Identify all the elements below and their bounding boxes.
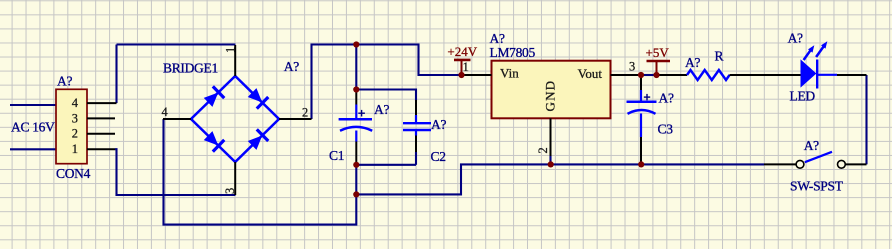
svg-text:2: 2 xyxy=(536,147,550,153)
wire gnd rail from C1 column to jog xyxy=(356,164,764,194)
wire black run +5V to resistor xyxy=(657,74,688,76)
CON4 pin 2 stub xyxy=(87,133,115,135)
wire top rail to bridge pin 1 xyxy=(117,43,236,45)
svg-text:A?: A? xyxy=(490,31,505,46)
svg-text:1: 1 xyxy=(224,47,238,53)
capacitor C3 graphic xyxy=(627,90,657,137)
svg-text:+24V: +24V xyxy=(447,44,477,59)
bridge pin 3 xyxy=(234,162,236,195)
svg-text:CON4: CON4 xyxy=(56,166,91,181)
wire C1 branch from rail xyxy=(355,45,357,90)
CON4 pin 4 stub xyxy=(87,102,117,104)
junction dot C1/C2 bottom xyxy=(353,162,359,168)
junction dot rail/C1 xyxy=(353,41,359,47)
switch SW left contact circle xyxy=(796,160,804,168)
wire CON4 pin4 up to top rail xyxy=(115,45,117,104)
LED cathode bar xyxy=(816,60,818,89)
junction dot C1 gnd rail xyxy=(353,191,359,197)
svg-text:A?: A? xyxy=(685,55,700,70)
capacitor C2 bottom pin xyxy=(415,130,417,136)
capacitor C1 bottom pin xyxy=(355,142,357,165)
wire resistor to LED xyxy=(730,74,802,76)
wire CON4 pin1 down to lower rail xyxy=(115,149,236,195)
bridge diode D-bottomright xyxy=(246,129,268,151)
junction dot C1/C2 top xyxy=(353,86,359,92)
capacitor C3 bottom pin xyxy=(640,137,642,164)
svg-text:3: 3 xyxy=(629,60,635,74)
svg-text:A?: A? xyxy=(57,74,72,89)
junction dot C3 bottom gnd xyxy=(638,161,644,167)
wire right edge vertical from LED to switch xyxy=(865,75,867,164)
CON4 pin 3 stub xyxy=(87,117,115,119)
capacitor C3 plus sign xyxy=(644,94,650,100)
switch SW right contact circle xyxy=(838,160,846,168)
bridge pin 1 xyxy=(234,45,236,76)
junction dot C3 top xyxy=(638,72,644,78)
junction dot LM7805 pin2 gnd xyxy=(548,161,554,167)
svg-text:A?: A? xyxy=(659,90,674,105)
connector CON4 body xyxy=(56,89,87,163)
LM7805 pin 2 xyxy=(550,118,552,156)
wire bridge pin2 up to +24V rail xyxy=(312,45,462,120)
capacitor C1 graphic xyxy=(339,105,373,142)
wire LM7805 pin2 lower segment xyxy=(549,156,551,164)
junction dot +24V xyxy=(458,72,464,78)
bridge diode D-topleft xyxy=(202,86,224,108)
svg-text:A?: A? xyxy=(374,102,389,117)
svg-text:3: 3 xyxy=(72,111,78,125)
regulator U LM7805 body xyxy=(492,61,611,119)
svg-text:AC 16V: AC 16V xyxy=(11,120,55,135)
switch SW right pin xyxy=(846,163,867,165)
svg-text:1: 1 xyxy=(463,60,469,74)
svg-text:1: 1 xyxy=(72,142,78,156)
svg-text:Vout: Vout xyxy=(578,66,603,81)
wire AC bottom from sheet edge to CON4 xyxy=(10,148,56,150)
svg-text:2: 2 xyxy=(72,127,78,141)
LED lead xyxy=(817,74,837,76)
bridge pin 4 xyxy=(163,118,191,120)
CON4 pin 1 stub xyxy=(87,148,115,150)
LED right pin xyxy=(837,74,867,76)
svg-text:SW-SPST: SW-SPST xyxy=(790,179,844,194)
resistor R zigzag xyxy=(687,70,730,80)
wire C2 bottom to lower node rail xyxy=(415,152,417,165)
svg-text:4: 4 xyxy=(162,105,168,119)
svg-text:GND: GND xyxy=(543,80,558,112)
wire node rail C1-C2 xyxy=(356,164,416,166)
LED arrow 1 xyxy=(804,45,815,60)
capacitor C1 top pin xyxy=(355,90,357,105)
capacitor C2 top pin xyxy=(415,100,417,116)
svg-text:3: 3 xyxy=(223,188,237,194)
svg-text:2: 2 xyxy=(302,106,308,120)
svg-text:C1: C1 xyxy=(329,148,344,163)
switch SW left pin xyxy=(764,163,796,165)
svg-text:A?: A? xyxy=(284,59,299,74)
svg-text:4: 4 xyxy=(72,96,78,110)
power port +24V xyxy=(447,44,477,75)
svg-text:R: R xyxy=(715,48,724,63)
LM7805 pin 3 xyxy=(611,74,642,76)
svg-text:+5V: +5V xyxy=(646,45,670,60)
switch SW lever xyxy=(805,152,832,162)
LED arrow 2 xyxy=(816,41,827,57)
svg-text:C3: C3 xyxy=(658,122,674,137)
wire C1 to C2 top xyxy=(356,90,416,101)
capacitor C3 top pin xyxy=(640,75,642,90)
bridge diode D-bottomleft xyxy=(202,130,224,152)
wire bridge pin4 down and right to ground rail xyxy=(164,119,357,225)
capacitor C2 plates xyxy=(403,123,431,130)
power port +5V xyxy=(646,45,671,75)
capacitor C1 plus sign xyxy=(358,110,365,117)
junction dot +5V xyxy=(653,72,659,78)
svg-text:A?: A? xyxy=(788,31,803,46)
wire AC top from sheet edge to CON4 xyxy=(10,104,56,106)
svg-text:A?: A? xyxy=(431,117,446,132)
svg-text:LM7805: LM7805 xyxy=(490,45,536,60)
svg-text:Vin: Vin xyxy=(500,66,519,81)
LM7805 pin 1 xyxy=(462,74,492,76)
bridge BRIDGE1 diamond xyxy=(191,76,279,162)
svg-text:BRIDGE1: BRIDGE1 xyxy=(163,60,218,75)
svg-text:LED: LED xyxy=(790,89,816,104)
bridge pin 2 xyxy=(279,118,312,120)
wire segment between +5V junctions xyxy=(641,74,657,76)
LED D triangle xyxy=(801,61,815,86)
bridge diode D-topright xyxy=(246,87,268,109)
svg-text:C2: C2 xyxy=(431,149,446,164)
svg-text:A?: A? xyxy=(804,138,819,153)
